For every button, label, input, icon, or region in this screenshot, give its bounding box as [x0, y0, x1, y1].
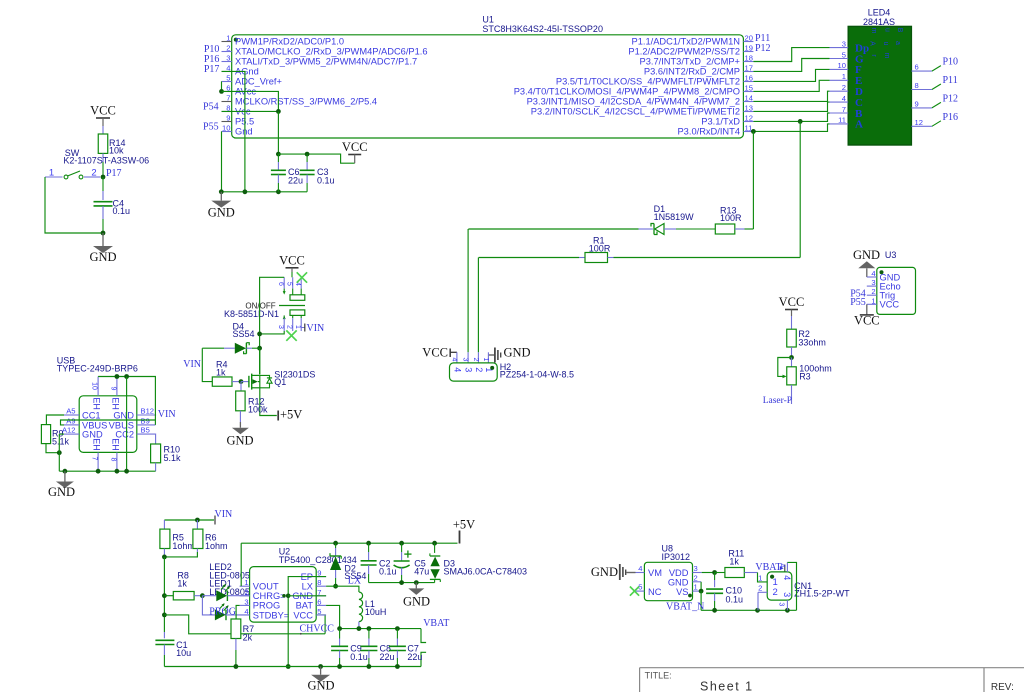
svg-text:GND: GND	[48, 485, 75, 499]
LED4 pin 3 (Dp)	[830, 47, 849, 49]
svg-text:P17: P17	[204, 64, 220, 75]
svg-text:+5V: +5V	[453, 518, 475, 532]
wire: switch pin6 to D4 node	[260, 277, 285, 374]
U1 pin 12	[743, 121, 753, 123]
wire	[45, 177, 103, 233]
svg-text:P55: P55	[203, 122, 219, 133]
+5V rail	[241, 542, 457, 544]
resistor R14	[98, 134, 108, 153]
svg-text:3: 3	[871, 278, 875, 287]
capacitor C1	[163, 632, 165, 638]
svg-text:P16: P16	[943, 112, 959, 123]
svg-text:3: 3	[842, 39, 846, 48]
svg-text:10: 10	[91, 382, 98, 390]
svg-text:0.1u: 0.1u	[113, 206, 131, 216]
svg-text:2: 2	[286, 325, 293, 329]
svg-text:P1.1/ADC1/TxD2/PWM1N: P1.1/ADC1/TxD2/PWM1N	[632, 37, 741, 47]
svg-text:12: 12	[915, 118, 923, 127]
wire: riser to H2 pin2	[477, 258, 479, 353]
U1 pin 1	[222, 41, 232, 43]
net label P10	[932, 66, 941, 72]
svg-text:GND: GND	[208, 206, 235, 220]
svg-text:2: 2	[842, 83, 846, 92]
wire: Q1 drain to +5V	[260, 388, 277, 416]
svg-text:u: u	[884, 28, 891, 32]
USB shell pins 10/9 top	[97, 377, 99, 396]
svg-text:1: 1	[758, 574, 762, 583]
svg-text:P3.0/RxD/INT4: P3.0/RxD/INT4	[677, 127, 740, 137]
wire: U1 pin5-pin6 tie	[221, 81, 223, 91]
H2 pin1 dot	[490, 366, 494, 370]
svg-text:14: 14	[745, 94, 753, 103]
U1 pin 10	[222, 131, 232, 133]
U1 pin 4	[222, 71, 232, 73]
power flag VCC (U3)	[866, 304, 868, 315]
svg-text:3: 3	[244, 597, 248, 606]
svg-text:10uH: 10uH	[365, 607, 387, 617]
net label P12	[932, 102, 941, 108]
svg-text:22u: 22u	[407, 652, 422, 662]
node	[57, 450, 62, 455]
node: LX	[333, 584, 338, 589]
wire: CHVCC riser to U2 VCC	[316, 615, 325, 634]
wire: VIN to CHVCC	[164, 615, 325, 634]
resistor R6	[196, 520, 198, 529]
svg-text:2: 2	[758, 584, 762, 593]
svg-text:P3.6/INT2/RxD_2/CMP: P3.6/INT2/RxD_2/CMP	[644, 67, 740, 77]
U1 pin1 indicator dot	[234, 38, 238, 42]
svg-text:TYPEC-249D-BRP6: TYPEC-249D-BRP6	[57, 363, 138, 373]
svg-text:1: 1	[842, 72, 846, 81]
U8 pin 2 GND	[693, 581, 702, 583]
wire: riser to H2 pin3	[467, 229, 469, 352]
svg-text:19: 19	[745, 44, 753, 53]
wire: BAT to VBAT rail	[326, 605, 340, 628]
svg-text:12: 12	[745, 114, 753, 123]
node	[162, 613, 167, 618]
resistor R2	[787, 329, 797, 347]
svg-text:MCLKO/RST/SS_3/PWM6_2/P5.4: MCLKO/RST/SS_3/PWM6_2/P5.4	[235, 97, 377, 107]
svg-text:1ohm: 1ohm	[205, 541, 228, 551]
svg-text:10: 10	[838, 61, 846, 70]
svg-text:Sheet 1: Sheet 1	[700, 680, 754, 692]
node	[162, 555, 167, 560]
svg-text:2: 2	[91, 168, 96, 179]
U1 pin 6	[222, 91, 232, 93]
U2 pin 7 GND	[316, 595, 326, 597]
U8 pin 5 NC	[636, 590, 645, 592]
svg-text:LED4: LED4	[868, 8, 891, 18]
svg-text:4: 4	[450, 358, 457, 362]
svg-text:B12: B12	[141, 407, 155, 416]
svg-text:P55: P55	[850, 297, 866, 308]
wire: VOUT riser to +5V rail	[240, 543, 242, 586]
svg-text:1ohm: 1ohm	[172, 541, 195, 551]
U2 pin 4 STDBY=	[240, 614, 250, 616]
svg-text:100R: 100R	[720, 213, 742, 223]
svg-text:3: 3	[464, 367, 474, 372]
svg-text:11: 11	[838, 116, 846, 125]
wire: U1 to LED4	[753, 124, 829, 131]
svg-text:EH: EH	[92, 438, 102, 451]
svg-text:EH: EH	[111, 438, 121, 451]
U3 pin dot	[880, 270, 884, 274]
wire: B5 to R10	[154, 434, 156, 444]
wire: AVcc to Vcc rail	[222, 91, 279, 111]
svg-text:10: 10	[222, 124, 230, 133]
U3 pin 2 Trig	[867, 294, 877, 296]
wire: U2 GND pin	[288, 595, 326, 597]
CN1 pin1 dot	[770, 575, 774, 579]
svg-text:VCC: VCC	[279, 254, 305, 268]
svg-text:B5: B5	[141, 426, 150, 435]
node	[195, 518, 200, 523]
ground rail under U1	[221, 191, 307, 193]
svg-text:K8-5851D-N1: K8-5851D-N1	[224, 309, 279, 319]
svg-text:LX: LX	[302, 582, 313, 592]
wire	[614, 257, 801, 259]
wire: pin10 Gnd down	[221, 131, 223, 191]
capacitor C3	[306, 154, 308, 162]
bottom ground rail	[164, 666, 421, 668]
svg-text:3: 3	[277, 325, 284, 329]
svg-text:2k: 2k	[243, 633, 253, 643]
U1 pin 17	[743, 71, 753, 73]
capacitor C6	[277, 154, 279, 162]
U2 CHRG pin dot	[282, 594, 286, 598]
svg-text:P54: P54	[203, 102, 219, 113]
wire	[102, 153, 104, 162]
wire	[745, 228, 754, 230]
U1 pin 5	[222, 81, 232, 83]
capacitor C2	[368, 543, 370, 552]
svg-text:VCC: VCC	[90, 104, 116, 118]
svg-text:0.1u: 0.1u	[379, 567, 397, 577]
svg-text:CHVCC: CHVCC	[300, 623, 335, 634]
svg-text:1N5819W: 1N5819W	[654, 212, 695, 222]
wire: LX to L1	[326, 586, 359, 592]
svg-text:STDBY=: STDBY=	[253, 610, 289, 620]
wire: to switch pin3	[260, 331, 285, 334]
svg-text:13: 13	[745, 104, 753, 113]
svg-text:VOUT: VOUT	[253, 582, 279, 592]
LED4 pin 10 (F)	[830, 68, 849, 70]
capacitor C10	[714, 573, 716, 581]
node	[699, 589, 704, 594]
capacitor C8	[368, 629, 370, 639]
svg-text:1k: 1k	[177, 579, 187, 589]
wire: shell top rail	[98, 377, 155, 421]
svg-text:22u: 22u	[380, 652, 395, 662]
svg-text:1: 1	[871, 296, 875, 305]
wire: VIN feed	[164, 519, 214, 521]
node	[115, 374, 120, 379]
svg-text:Laser-P: Laser-P	[763, 396, 792, 406]
connector U3 body	[877, 267, 916, 314]
node	[712, 570, 717, 575]
svg-text:SMAJ6.0CA-C78403: SMAJ6.0CA-C78403	[444, 567, 528, 577]
svg-text:10k: 10k	[109, 146, 124, 156]
svg-text:CHRG=: CHRG=	[253, 591, 286, 601]
svg-text:A5: A5	[66, 407, 75, 416]
U1 pin 7	[222, 101, 232, 103]
U1 pin 20	[743, 41, 753, 43]
wire: VBAT_N down	[700, 591, 702, 610]
wire: CC1 to R9	[46, 415, 64, 425]
svg-text:2: 2	[773, 587, 778, 598]
wire: U1 to LED4	[753, 59, 829, 72]
connector CN1 ZH1.5-2P-WT	[767, 572, 792, 600]
capacitor C9	[339, 629, 341, 639]
USB pin A5 CC1	[64, 414, 79, 416]
svg-text:NC: NC	[648, 587, 662, 597]
U1 pin 8	[222, 111, 232, 113]
svg-text:VCC: VCC	[422, 346, 448, 360]
svg-text:VBAT: VBAT	[423, 618, 449, 629]
svg-text:GND: GND	[82, 430, 103, 440]
U8 pin 1 VS	[693, 590, 702, 592]
svg-text:0.1u: 0.1u	[317, 176, 335, 186]
node	[333, 541, 338, 546]
VBAT rail	[340, 628, 421, 630]
net label VIN (switch)	[301, 327, 304, 329]
svg-text:LX: LX	[348, 576, 362, 587]
svg-text:10u: 10u	[176, 648, 191, 658]
svg-text:+5V: +5V	[280, 408, 302, 422]
net label P16	[932, 121, 941, 127]
wire: RxD down to D1/R13	[752, 131, 754, 229]
svg-text:2: 2	[244, 588, 248, 597]
svg-text:4: 4	[871, 269, 875, 278]
USB pin A9 VBUS	[64, 424, 79, 426]
U1 pin 14	[743, 101, 753, 103]
svg-text:P11: P11	[943, 75, 958, 86]
wire: TxD down to R1	[799, 121, 801, 257]
USB pin B12 GND	[137, 414, 156, 416]
LED4 pin 11 (A)	[830, 123, 849, 125]
svg-text:2: 2	[694, 573, 698, 582]
svg-text:3: 3	[778, 602, 785, 606]
U1 pin 3	[222, 61, 232, 63]
svg-text:K2-1107ST-A3SW-06: K2-1107ST-A3SW-06	[63, 156, 149, 166]
node: P3.0/RxD tap	[751, 129, 756, 134]
svg-text:6: 6	[277, 282, 284, 286]
svg-text:5: 5	[842, 50, 846, 59]
svg-text:0.1u: 0.1u	[726, 595, 744, 605]
svg-text:EH: EH	[111, 397, 121, 410]
svg-text:m: m	[883, 53, 890, 59]
ground flag (H2, sideways)	[488, 354, 494, 356]
svg-text:VIN: VIN	[307, 323, 325, 334]
svg-text:P3.1/TxD: P3.1/TxD	[701, 117, 740, 127]
svg-text:GND: GND	[226, 434, 253, 448]
node	[366, 541, 371, 546]
resistor R8	[164, 595, 173, 597]
svg-text:ADC_Vref+: ADC_Vref+	[235, 77, 282, 87]
LED4 pin 7 (B)	[830, 112, 849, 114]
svg-text:7: 7	[226, 94, 230, 103]
node	[286, 664, 291, 669]
wire: A12 GND down	[59, 433, 64, 435]
node	[257, 332, 262, 337]
wire: U1 to LED4	[753, 91, 829, 101]
LED LED1	[202, 596, 215, 615]
svg-text:VCC: VCC	[342, 140, 368, 154]
svg-text:STC8H3K64S2-45I-TSSOP20: STC8H3K64S2-45I-TSSOP20	[482, 24, 603, 34]
node	[124, 374, 129, 379]
node	[305, 152, 310, 157]
rheostat R3 with wiper loop	[778, 358, 792, 377]
svg-text:8: 8	[915, 81, 919, 90]
svg-text:6: 6	[317, 597, 321, 606]
wire: RxD net to diode	[468, 228, 638, 230]
svg-text:2: 2	[226, 44, 230, 53]
svg-text:EH: EH	[92, 397, 102, 410]
svg-text:u: u	[882, 42, 889, 46]
svg-text:1: 1	[244, 578, 248, 587]
svg-text:VCC: VCC	[880, 300, 900, 310]
ground (USB)	[64, 471, 66, 481]
resistor R9	[41, 425, 50, 444]
svg-text:CC1: CC1	[82, 410, 101, 420]
svg-text:VCC: VCC	[854, 314, 880, 328]
svg-text:9: 9	[110, 387, 117, 391]
svg-text:PZ254-1-04-W-8.5: PZ254-1-04-W-8.5	[500, 370, 574, 380]
wire: pin4 AGnd down to ground rail	[222, 71, 245, 191]
node	[276, 152, 281, 157]
svg-text:P3.3/INT1/MISO_4/I2CSDA_4/PWM4: P3.3/INT1/MISO_4/I2CSDA_4/PWM4N_4/PWM7_2	[527, 97, 740, 107]
node	[399, 541, 404, 546]
svg-text:22u: 22u	[288, 176, 303, 186]
wire: VBUS bus	[61, 420, 156, 425]
svg-text:5.1k: 5.1k	[164, 453, 182, 463]
node	[286, 594, 291, 599]
svg-text:3: 3	[694, 564, 698, 573]
svg-text:2841AS: 2841AS	[863, 17, 895, 27]
svg-text:VIN: VIN	[158, 409, 176, 420]
svg-text:P3.4/T0/T1CLKO/MOSI_4/PWM4P_4/: P3.4/T0/T1CLKO/MOSI_4/PWM4P_4/PWM8_2/CMP…	[514, 87, 740, 97]
CN1 pin3 stub	[786, 600, 788, 610]
svg-text:16: 16	[745, 74, 753, 83]
ground (SW)	[102, 233, 104, 246]
svg-text:m: m	[870, 28, 877, 34]
power flag +5V (rail)	[459, 531, 461, 544]
svg-text:A12: A12	[62, 426, 76, 435]
U1 pin 18	[743, 61, 753, 63]
U3 pin 4 GND	[867, 276, 877, 278]
connector H2 PZ254-1-04-W-8.5	[456, 352, 458, 363]
svg-text:47u: 47u	[414, 567, 429, 577]
svg-text:P12: P12	[943, 93, 959, 104]
svg-text:GND: GND	[307, 679, 334, 692]
svg-text:Gnd: Gnd	[235, 127, 253, 137]
svg-text:XTALO/MCLKO_2/RxD_3/PWM4P/ADC6: XTALO/MCLKO_2/RxD_3/PWM4P/ADC6/P1.6	[235, 47, 428, 57]
wire: EP/GND tie	[288, 577, 326, 667]
svg-text:2: 2	[474, 367, 484, 372]
mid ground rail	[369, 582, 435, 584]
node: Q1 gate / R12	[239, 379, 244, 384]
svg-text:9: 9	[915, 99, 919, 108]
resistor R7	[231, 619, 241, 639]
svg-text:U3: U3	[885, 250, 897, 260]
svg-text:PWM1P/RxD2/ADC0/P1.0: PWM1P/RxD2/ADC0/P1.0	[235, 37, 344, 47]
U2 pin 2 CHRG=	[240, 595, 250, 597]
svg-text:4: 4	[244, 607, 248, 616]
capacitor C4	[102, 177, 104, 191]
svg-text:GND: GND	[89, 250, 116, 264]
CN1 pin2 wire	[758, 591, 767, 593]
svg-text:17: 17	[745, 64, 753, 73]
ground (5V filter)	[415, 583, 417, 589]
wire: U1 to LED4	[753, 69, 829, 81]
wire: to CN1 pin1	[758, 573, 768, 582]
USB pin A12 GND	[64, 433, 79, 435]
svg-text:PROG: PROG	[253, 601, 280, 611]
svg-text:PROG: PROG	[209, 607, 236, 618]
LED4 pin 12	[911, 125, 932, 127]
node	[276, 109, 281, 114]
svg-text:15: 15	[745, 84, 753, 93]
battery plug hooks	[421, 629, 426, 643]
svg-text:GND: GND	[403, 595, 430, 609]
U1 pin 19	[743, 51, 753, 53]
node: LED feed	[200, 593, 205, 598]
svg-text:VIN: VIN	[183, 359, 201, 370]
U3 pin 3 Echo	[867, 285, 877, 287]
svg-text:5.1k: 5.1k	[52, 437, 70, 447]
svg-text:GND: GND	[591, 565, 618, 579]
capacitor C7	[396, 629, 398, 639]
U1 pin 16	[743, 81, 753, 83]
svg-text:VM: VM	[648, 568, 662, 578]
U2 pin 6 BAT	[316, 604, 326, 606]
svg-text:P1.2/ADC2/PWM2P/SS/T2: P1.2/ADC2/PWM2P/SS/T2	[628, 47, 740, 57]
node	[432, 541, 437, 546]
svg-text:3: 3	[226, 54, 230, 63]
U3 pin 1 VCC	[867, 303, 877, 305]
ground (R12)	[239, 422, 241, 428]
svg-text:VBAT: VBAT	[755, 562, 781, 573]
U1 pin 13	[743, 111, 753, 113]
wire: VIN rail down	[163, 557, 165, 632]
node	[219, 89, 224, 94]
wire: VIN down to R4	[202, 348, 212, 381]
U1 pin 2	[222, 51, 232, 53]
svg-text:R3: R3	[799, 372, 811, 382]
svg-text:VCC: VCC	[779, 295, 805, 309]
wire	[277, 111, 279, 154]
svg-text:6: 6	[915, 63, 919, 72]
svg-text:GND: GND	[113, 410, 134, 420]
svg-text:5: 5	[286, 282, 293, 286]
LED4 pin 1 (E)	[830, 79, 849, 81]
svg-text:P17: P17	[106, 168, 122, 179]
svg-text:P3.2/INT0/SCLK_4/I2CSCL_4/PWME: P3.2/INT0/SCLK_4/I2CSCL_4/PWMETI/PWMETI2	[531, 107, 740, 117]
svg-text:A: A	[855, 119, 863, 131]
svg-text:1: 1	[49, 168, 54, 179]
USB pin B5 CC2	[137, 433, 156, 435]
svg-text:P3.5/T1/T0CLKO/SS_4/PWMFLT/PWM: P3.5/T1/T0CLKO/SS_4/PWMFLT/PWMFLT2	[556, 77, 740, 87]
U1 pin 15	[743, 91, 753, 93]
IC U1 STC8H3K64S2-45I-TSSOP20 body	[232, 35, 744, 138]
svg-text:A9: A9	[66, 417, 75, 426]
svg-text:GND: GND	[504, 346, 531, 360]
U8 pin 4 VM	[636, 572, 645, 574]
svg-text:3: 3	[782, 592, 792, 597]
U2 pin 5 VCC	[316, 614, 326, 616]
node	[789, 355, 794, 360]
capacitor C5 (polarized)	[401, 543, 403, 552]
